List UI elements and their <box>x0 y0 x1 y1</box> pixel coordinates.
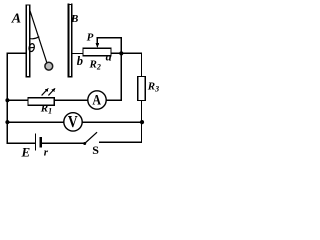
svg-text:B: B <box>70 13 78 25</box>
svg-text:b: b <box>77 54 83 68</box>
resistor R1 (photoresistor body) <box>28 98 54 106</box>
switch blade <box>85 133 97 144</box>
svg-text:P: P <box>87 31 94 43</box>
junction dot voltmeter-R3 branch <box>140 120 144 124</box>
svg-text:A: A <box>11 12 21 27</box>
wire bus to voltmeter <box>7 121 63 123</box>
wire battery to switch <box>42 142 84 144</box>
battery short plate <box>40 138 42 146</box>
wire R1 to ammeter <box>54 99 88 101</box>
junction node a dot <box>119 51 123 55</box>
resistor R2 (rheostat body) <box>83 48 111 56</box>
svg-text:V: V <box>68 112 78 131</box>
svg-text:E: E <box>21 145 31 159</box>
wire R3 bottom to bottom rail <box>141 101 143 143</box>
wire voltmeter to R3 branch <box>82 121 141 123</box>
plate B <box>68 5 70 77</box>
svg-text:S: S <box>92 143 99 157</box>
junction dot on bus at R1 wire <box>5 98 9 102</box>
bottom rail: bus to battery <box>7 142 35 144</box>
svg-text:A: A <box>92 92 101 108</box>
battery long plate <box>34 134 36 149</box>
wire left-bus to plate A <box>7 53 26 143</box>
svg-text:r: r <box>44 147 49 159</box>
switch pivot dot <box>83 142 86 145</box>
wire R1 line: bus to R1 <box>7 99 28 101</box>
light arrow 2 on R1 <box>49 89 54 95</box>
angle arc theta <box>30 37 39 39</box>
plate A <box>25 5 27 77</box>
wire switch to right corner <box>100 141 142 143</box>
wire node a down to ammeter <box>106 53 121 100</box>
svg-text:a: a <box>106 49 112 63</box>
label theta <box>28 43 35 52</box>
pendulum ball <box>45 62 53 70</box>
slider P arrow <box>96 38 98 45</box>
ammeter circle <box>88 91 106 109</box>
string of pendulum <box>30 10 47 63</box>
wire node a to R3 branch <box>121 53 141 76</box>
junction dot on bus at voltmeter wire <box>5 120 9 124</box>
resistor R3 <box>138 77 146 101</box>
wire plate B to R2 terminal b <box>72 53 83 55</box>
wire slider P to node a <box>97 38 121 54</box>
wire R2 right end to node a <box>111 52 121 54</box>
voltmeter circle <box>64 113 82 131</box>
light arrow 1 on R1 <box>42 89 47 95</box>
